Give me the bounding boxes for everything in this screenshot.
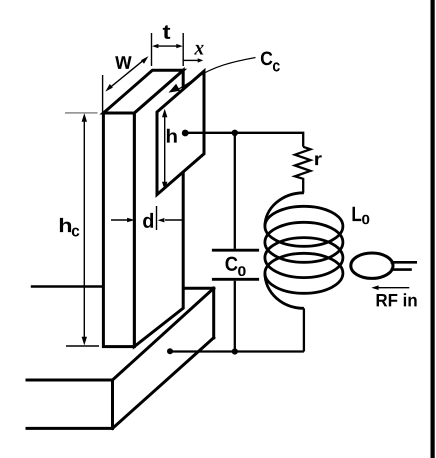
node on base <box>167 348 173 354</box>
node on electrode <box>182 130 189 137</box>
dimension x <box>183 59 198 61</box>
wire inductor to bottom <box>303 308 305 351</box>
dimension hc <box>65 113 99 346</box>
label w <box>115 56 131 69</box>
label h <box>167 129 177 143</box>
capacitor C0 <box>234 133 236 352</box>
feed line lower <box>391 268 412 271</box>
label L0 <box>353 207 362 221</box>
RF in arrow <box>376 287 409 289</box>
wire bottom <box>170 350 304 352</box>
feed line upper <box>391 261 418 264</box>
inductor L0 <box>265 193 343 308</box>
dimension h <box>164 115 166 184</box>
label d <box>143 213 153 228</box>
dimension w <box>103 60 144 112</box>
resistor r <box>295 147 311 193</box>
base block <box>27 287 214 429</box>
leader Cc <box>175 58 256 92</box>
label RF in <box>377 293 417 306</box>
dimension t <box>152 33 184 66</box>
electrode plate <box>157 71 204 194</box>
junction node top <box>232 130 238 136</box>
label x <box>194 45 203 55</box>
label C0 <box>226 257 238 271</box>
label t <box>163 25 170 39</box>
wire top <box>186 133 303 147</box>
resonator bar <box>103 70 183 346</box>
junction node bottom <box>232 348 238 354</box>
label hc <box>60 218 71 232</box>
dimension d <box>111 206 183 230</box>
pickup loop <box>351 253 393 278</box>
label Cc <box>261 52 273 66</box>
label r <box>315 155 322 165</box>
